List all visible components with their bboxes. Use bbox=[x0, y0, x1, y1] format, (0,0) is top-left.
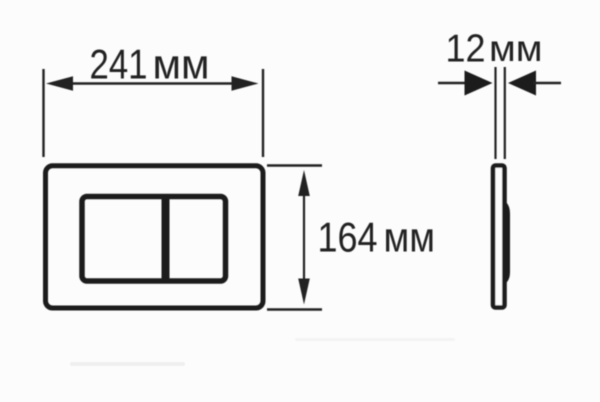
svg-text:мм: мм bbox=[489, 28, 543, 69]
svg-text:164: 164 bbox=[318, 214, 378, 261]
svg-text:12: 12 bbox=[446, 28, 486, 71]
svg-text:241: 241 bbox=[90, 41, 148, 88]
svg-text:мм: мм bbox=[384, 214, 436, 261]
svg-text:мм: мм bbox=[153, 41, 210, 88]
